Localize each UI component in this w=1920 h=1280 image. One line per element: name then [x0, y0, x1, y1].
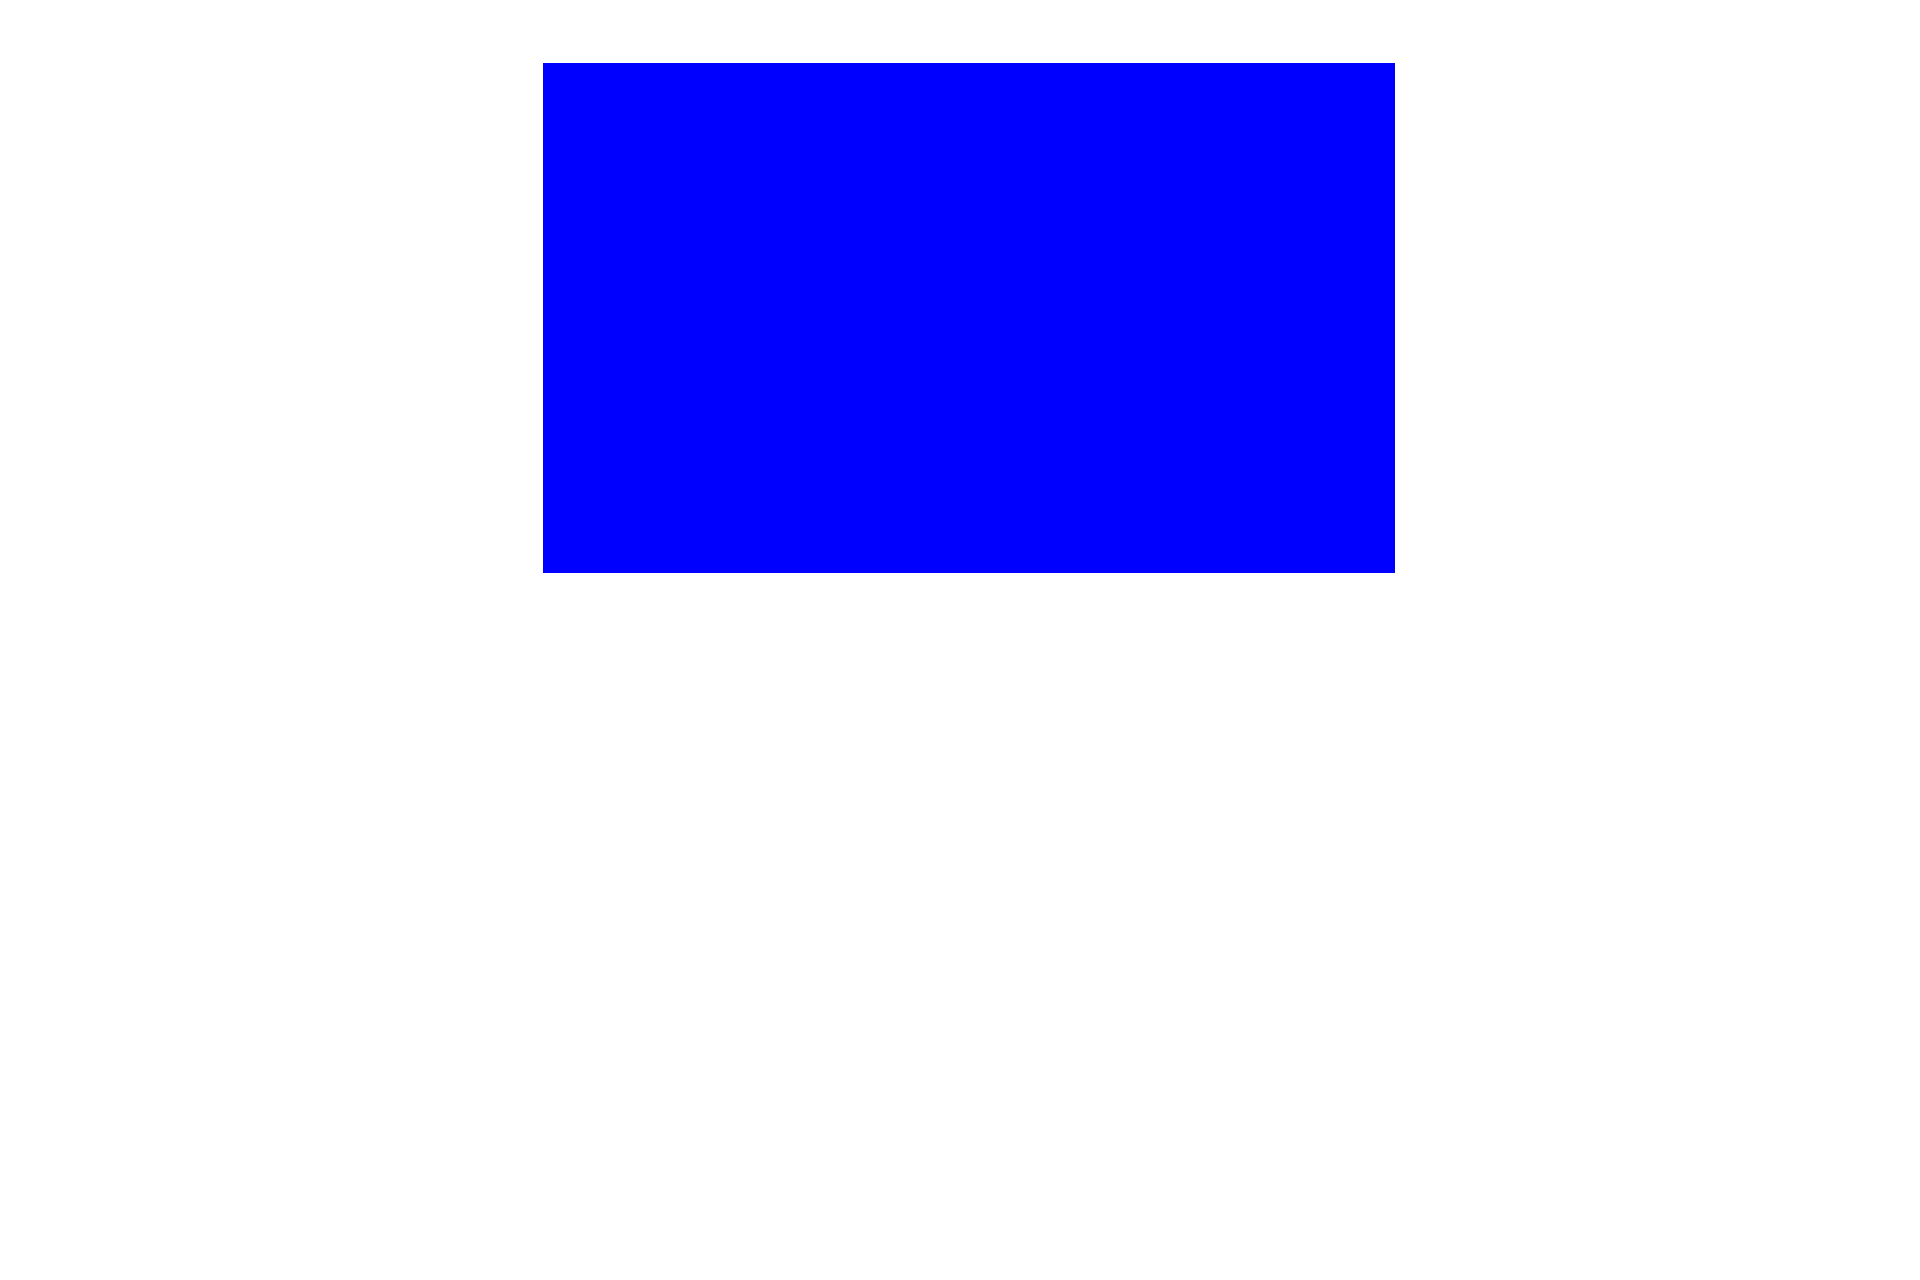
- blue rectangle: [543, 63, 1395, 573]
